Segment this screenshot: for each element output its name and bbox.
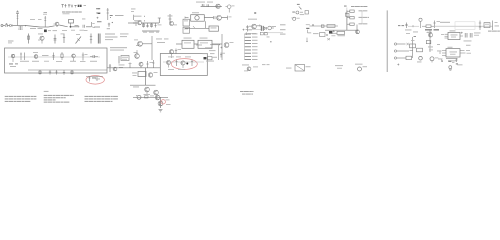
capacitor C22 (154, 23, 156, 28)
node tiny mark (270, 41, 272, 42)
wire vertical (151, 36, 153, 60)
pins left of U7 (442, 51, 446, 56)
node D dot (186, 63, 188, 65)
resistor R20 (129, 63, 132, 68)
annotation red circle (161, 100, 165, 104)
polarized capacitor C27 dark (261, 26, 263, 31)
transistor Q30 (427, 32, 433, 37)
resistor R5 (75, 26, 80, 28)
dark text cluster (425, 29, 439, 32)
wire long (434, 25, 493, 27)
wire vertical 2 (429, 31, 431, 53)
node B junction (70, 26, 72, 28)
wire second row (265, 32, 283, 34)
resistor R15 (39, 70, 41, 75)
transistor Q3 (38, 34, 44, 44)
capacitor C26 cluster (243, 29, 248, 31)
capacitor C16 (49, 70, 51, 75)
transistor Q1 labels (18, 27, 23, 30)
wire main horizontal (107, 67, 160, 69)
resistor R31 rung (347, 17, 369, 19)
diode D5 (264, 27, 266, 30)
note paragraph 2 (44, 95, 74, 103)
resistor R10 (90, 34, 92, 44)
wire vertical (160, 97, 162, 108)
text label (82, 18, 85, 21)
capacitor C5 cluster (65, 4, 67, 8)
relay K1 box (182, 38, 194, 49)
text marks (428, 47, 433, 51)
capacitor C14 (52, 53, 54, 61)
transistor Q21 (134, 50, 140, 58)
capacitor C9 (83, 25, 84, 28)
pins left of U6 (441, 34, 448, 38)
bus bottom wire (325, 29, 358, 31)
resistor R32 rung (347, 23, 367, 25)
capacitor C17 (63, 70, 65, 75)
wire vertical mid (218, 44, 220, 60)
capacitor C12 (61, 34, 66, 44)
capacitor C19 above (175, 49, 181, 55)
node X mark (327, 38, 330, 40)
text annotation block (240, 91, 254, 95)
dashed region (455, 22, 475, 30)
capacitor C4 marks (43, 13, 47, 15)
test point TP4 (291, 17, 299, 20)
motor M2 (430, 57, 438, 63)
wire (86, 76, 103, 78)
integrated circuit U2 stacked box (183, 19, 190, 26)
annotation ellipse red 1 (171, 59, 197, 70)
resistor R13 (82, 53, 88, 61)
resistor R3 cluster (62, 4, 64, 7)
transistor Q20 (134, 40, 152, 47)
transistor Q9 (139, 62, 143, 68)
resistor R37 marks (260, 32, 269, 37)
wire (18, 25, 26, 27)
text far right (488, 31, 500, 32)
transistor Q24 (145, 87, 150, 94)
resistor R8 (107, 22, 113, 29)
top rail (201, 6, 222, 8)
wire (8, 56, 100, 58)
left column marks (437, 44, 443, 62)
resistor R36 (426, 41, 431, 44)
wire (21, 26, 49, 31)
text label (42, 54, 49, 57)
resistor R4 cluster (68, 5, 70, 8)
wire (222, 17, 228, 19)
text dashes (398, 24, 404, 27)
text (166, 100, 171, 105)
wire right edge (361, 11, 363, 24)
capacitor C18 (146, 61, 153, 68)
text dash rows far left (280, 24, 286, 34)
capacitor C2 (16, 11, 19, 14)
transistor Q2 (54, 22, 59, 27)
wire (133, 96, 168, 98)
text row inside box 2 (70, 61, 97, 62)
text mid right (464, 41, 472, 46)
output stage box B (160, 54, 207, 76)
polarized capacitor C8 (80, 5, 86, 7)
node VDD plus (460, 32, 463, 36)
resistor R7 marks (110, 15, 113, 18)
buzzer LS2 cluster (355, 64, 367, 71)
polarized capacitor C7 (78, 5, 80, 7)
resistor R25 (143, 23, 145, 28)
text labels in box (168, 56, 191, 59)
connector pin P1 (394, 43, 408, 45)
diode D2 cluster (75, 5, 77, 8)
wire (8, 25, 10, 27)
capacitor C11 (54, 35, 57, 44)
wire long mid (309, 25, 338, 27)
input tick (185, 17, 189, 19)
node tick (193, 26, 195, 28)
diode D3 diagonal (76, 34, 82, 44)
diode D1 (10, 24, 12, 27)
text marks (133, 86, 139, 89)
oscillator U4 box (191, 12, 205, 21)
capacitor C33 (465, 33, 467, 38)
resistor R12 (61, 52, 63, 60)
node VCC tick (202, 4, 205, 7)
capacitor C1 (6, 23, 8, 27)
resistor R2 (44, 16, 46, 27)
transistor Q10 (169, 50, 173, 58)
transistor Q29 (356, 25, 360, 35)
transistor Q8 (113, 67, 117, 71)
relay K4 cluster (443, 60, 463, 70)
ground bus (142, 31, 160, 33)
terminal strip J2 (245, 33, 258, 60)
transistor Q5 (33, 52, 38, 58)
node tick far right (397, 64, 399, 66)
wire vertical (411, 37, 413, 58)
switch S1 cluster (286, 65, 311, 72)
text label row (115, 15, 124, 16)
node C stub (133, 15, 136, 26)
text top right (351, 6, 367, 7)
test point TP3 (292, 11, 308, 15)
node tick small (254, 12, 256, 13)
node IN input terminal (1, 25, 5, 27)
terminal strip stem (244, 34, 246, 60)
capacitor C34 (470, 33, 472, 38)
connector J1 box (119, 56, 129, 64)
diode D7 box (410, 36, 417, 48)
capacitor C15 (90, 55, 98, 58)
transistor Q19 right cluster (246, 19, 261, 31)
capacitor C13 dark pair (98, 34, 100, 44)
motor M1 circle (136, 95, 141, 99)
text marks below 2 (308, 32, 319, 34)
wire inside box (163, 61, 204, 63)
diode D6 box (337, 31, 345, 36)
relay K3 small box (484, 23, 490, 28)
wire (408, 25, 419, 27)
wire (12, 25, 17, 27)
transistor Q22 (224, 42, 233, 47)
transistor Q13 (242, 65, 258, 72)
wire (86, 26, 91, 28)
text label (119, 65, 125, 68)
wire lower (28, 69, 107, 71)
capacitor C25 (207, 4, 209, 7)
annotation ellipse red 2 (86, 76, 104, 85)
integrated circuit U6 (448, 30, 460, 39)
text under (168, 68, 185, 71)
transistor Q23 (148, 72, 157, 77)
logic gate U5 box (209, 26, 218, 31)
capacitor C10 marks (96, 8, 102, 22)
transistor Q18 (226, 5, 235, 13)
resistor R28 marks (228, 16, 232, 20)
separator line (386, 10, 388, 72)
wire vertical right (221, 34, 223, 60)
capacitor C24 (214, 16, 215, 19)
capacitor C31 marks (433, 21, 440, 29)
text below U7 (446, 58, 458, 61)
resistor R35 (417, 48, 423, 52)
integrated circuit U7 (446, 47, 460, 57)
resistor R11 (20, 53, 25, 61)
polarized capacitor C36 dark (204, 57, 218, 60)
text below row (206, 60, 214, 63)
diode D8 on wire (321, 25, 324, 27)
text label row TP1 (62, 12, 82, 15)
capacitor C35 (455, 59, 457, 63)
connector pin P2 (394, 50, 413, 52)
wire stub down (306, 38, 307, 43)
crystal Y1 box (132, 72, 146, 77)
resistor R27 cluster (168, 14, 173, 23)
resistor R1 (17, 14, 19, 26)
node TP2 mark (98, 8, 101, 14)
capacitor C28 (345, 13, 349, 16)
resistor R9 (27, 34, 29, 44)
wire horizontal (130, 84, 156, 86)
integrated circuit U1 small box (69, 20, 74, 28)
ground symbol (159, 110, 163, 112)
text label row (8, 41, 14, 44)
transistor Q27 (158, 101, 163, 106)
transistor Q15 (170, 22, 178, 26)
transistor Q12 (181, 61, 185, 68)
text block (105, 34, 118, 41)
text label row (255, 25, 261, 26)
transistor Q17 on rail (216, 4, 220, 8)
capacitor C32 (493, 21, 500, 31)
polarized capacitor C29 dark (329, 30, 335, 33)
resistor R14 small (9, 63, 18, 66)
node VBUS tick (312, 24, 314, 26)
resistor R23 (191, 60, 193, 67)
text value row (30, 19, 43, 29)
diode D4 (246, 25, 261, 31)
wire (204, 17, 213, 19)
text top (196, 1, 213, 4)
wire (142, 22, 160, 24)
text marks below (246, 32, 256, 35)
text label (474, 33, 481, 36)
buzzer LS1 (417, 56, 422, 62)
resistor R19 (109, 64, 111, 72)
note paragraph 1 (5, 96, 37, 102)
wire (176, 43, 222, 45)
transistor Q11 (167, 61, 171, 68)
logic gate U8 box (327, 25, 335, 28)
integrated circuit U3 stacked box (183, 27, 190, 33)
transistor Q14 (138, 21, 142, 25)
node arrow mark (297, 4, 302, 9)
text rows (203, 47, 216, 54)
resistor R34 (479, 21, 481, 31)
transistor Q4 (11, 54, 14, 62)
resistor R33 (422, 25, 434, 28)
wire (185, 21, 209, 28)
switch S2 small box (320, 33, 337, 37)
resistor R16 (55, 70, 57, 75)
text label (440, 22, 450, 23)
amplifier block box A (5, 48, 108, 73)
transistor Q6 (72, 54, 76, 61)
pins right of U7 (460, 50, 471, 54)
capacitor C6 cluster (71, 5, 73, 8)
text dashes (156, 39, 169, 43)
resistor R18 in ellipse (88, 77, 90, 82)
text row inside box (20, 61, 62, 62)
text block right (110, 34, 129, 51)
capacitor C30 (405, 23, 407, 29)
transistor Q7 in ellipse (92, 77, 100, 82)
relay K2 box (198, 38, 212, 49)
node tick (412, 25, 414, 27)
wire (48, 25, 67, 27)
wire (128, 22, 137, 24)
bus vertical (344, 6, 347, 31)
polarized capacitor C3 (44, 30, 47, 33)
text rows left (134, 16, 145, 22)
text value row (48, 29, 57, 32)
note paragraph 2 heading (44, 91, 49, 92)
resistor R29 (144, 95, 151, 99)
connector pins (306, 24, 310, 33)
resistor R17 (71, 70, 73, 75)
transistor Q26 (155, 95, 160, 100)
resistor R21 (152, 60, 154, 68)
connector pin P3 (394, 56, 411, 59)
capacitor C23 (158, 18, 162, 25)
text marks (8, 63, 16, 67)
resistor R30 rung (347, 10, 367, 12)
lamp DS1 (419, 18, 422, 28)
wire (71, 26, 80, 28)
resistor R22 (175, 60, 177, 67)
resistor R26 (151, 23, 153, 28)
inductor L1 vertical (107, 8, 110, 20)
text cluster top (405, 30, 418, 34)
wire tick top (196, 44, 220, 45)
text marks (335, 65, 343, 68)
transistor Q28 (268, 26, 276, 30)
transistor Q16 (217, 15, 222, 20)
text label (131, 9, 136, 12)
capacitor C21 (146, 23, 148, 28)
resistor R6 (92, 22, 95, 28)
wire vertical (144, 68, 146, 85)
text dashes (262, 63, 270, 66)
wire (94, 26, 100, 28)
transistor Q25 (150, 90, 158, 96)
note paragraph 3 (85, 96, 118, 102)
capacitor C20 (220, 47, 225, 58)
node A junction (25, 25, 26, 26)
text labels under rail (62, 30, 88, 31)
